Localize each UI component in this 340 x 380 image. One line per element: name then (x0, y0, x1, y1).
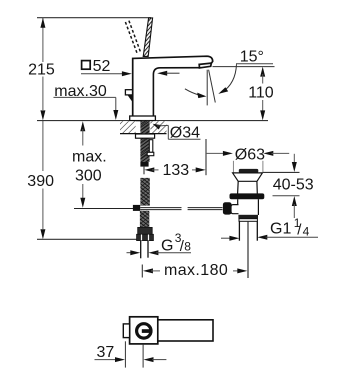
flexible hose upper segment (140, 178, 149, 206)
square-52 right arrow inside body (157, 71, 179, 76)
svg-text:37: 37 (97, 344, 115, 361)
label G3/8 with arrows (127, 231, 192, 255)
svg-text:52: 52 (93, 58, 111, 75)
dimension 37 (95, 341, 167, 367)
lever port (231, 205, 239, 214)
lift rod below deck (149, 140, 153, 153)
svg-text:133: 133 (163, 162, 190, 179)
svg-text:300: 300 (75, 167, 102, 184)
lever handle (solid position) (143, 18, 152, 57)
svg-text:G: G (161, 237, 173, 254)
svg-text:max.180: max.180 (164, 262, 228, 279)
pop-up horizontal rod (140, 208, 222, 210)
svg-text:G1: G1 (270, 220, 291, 237)
bottom view: left tab (123, 324, 129, 338)
counter deck top line (37, 120, 268, 122)
bottom reference line (hose end level) (37, 238, 137, 240)
ball rod nut (223, 202, 232, 214)
left arc arrow pointing at vertical line (185, 89, 200, 95)
pop-up knob on body left (125, 90, 132, 95)
rubber seal ring (230, 193, 265, 199)
15-degree reference lines (206, 70, 208, 106)
waste plug top (239, 169, 258, 173)
svg-text:390: 390 (27, 173, 54, 190)
waste flange (233, 173, 263, 181)
hose hex nut (137, 234, 154, 240)
dimension max.180 (142, 262, 247, 279)
threaded shank through deck (140, 121, 149, 162)
G3/8 connection tube (140, 241, 142, 259)
waste upper tube (238, 181, 258, 193)
waste locknut (238, 215, 258, 219)
svg-text:4: 4 (303, 225, 310, 239)
lever handle (dashed alternate position) (125, 21, 140, 54)
15-degree arc with arrow (222, 64, 237, 92)
base plate (130, 116, 156, 121)
aerator at spout tip (199, 63, 211, 68)
svg-text:Ø34: Ø34 (170, 125, 200, 142)
horseshoe washer (136, 134, 155, 138)
dimension max.300 (72, 121, 107, 208)
G1 1/4 tailpipe (238, 221, 240, 240)
dimension 110 (213, 67, 275, 121)
svg-text:Ø63: Ø63 (235, 146, 265, 163)
svg-text:max.: max. (72, 148, 107, 165)
top reference line (37, 17, 151, 19)
label dia63 with dimension (206, 146, 289, 172)
svg-text:15°: 15° (240, 48, 264, 65)
svg-text:8: 8 (184, 240, 191, 254)
waste body (238, 199, 259, 215)
G logo emblem (137, 324, 151, 338)
tailpipe center tube (247, 221, 249, 278)
hose crimp fitting (138, 227, 153, 234)
dimension 215 (28, 18, 55, 121)
pop-up rod left extension (74, 208, 133, 210)
label square-52 (81, 58, 132, 76)
shank tip (140, 162, 148, 167)
dimension 40-53 (263, 154, 314, 218)
svg-text:215: 215 (28, 61, 55, 78)
rod clamp (133, 205, 140, 211)
deck slab cross-section with hatch (120, 121, 136, 133)
bottom view: handle square (130, 317, 158, 344)
dimension 390 (27, 121, 54, 240)
dimension 133 (144, 139, 206, 179)
svg-text:110: 110 (248, 85, 274, 102)
faucet body and spout outline (133, 56, 213, 116)
label G1 1/4 with arrows (221, 216, 318, 241)
svg-text:40-53: 40-53 (273, 177, 314, 194)
flexible hose lower segment (140, 211, 149, 228)
label max.30 (54, 83, 119, 120)
label dia34 (153, 124, 201, 142)
bottom view: spout arm (158, 320, 213, 341)
